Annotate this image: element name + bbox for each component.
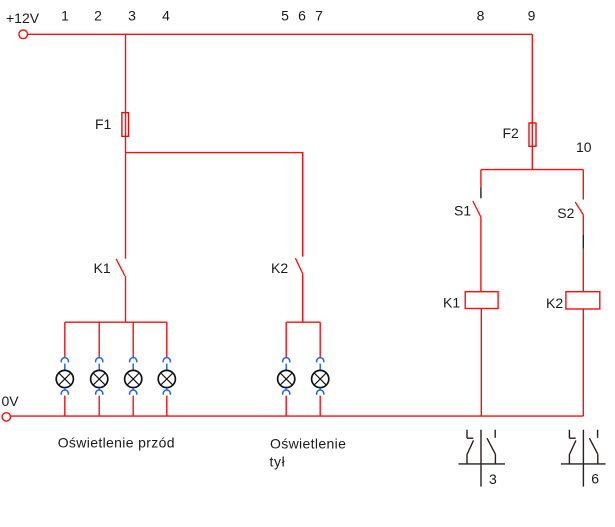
lamp L1 with connectors (56, 358, 73, 395)
svg-text:8: 8 (477, 7, 485, 23)
svg-text:K2: K2 (271, 260, 288, 276)
wire S1 upper stub (480, 170, 482, 188)
lamp L6 with connectors (312, 358, 329, 395)
terminal 0V (2, 413, 10, 421)
label Oswietlenie tyl line2 (270, 453, 286, 469)
wire number 3 (128, 7, 136, 23)
contact K1 (relay contact, NO) (116, 259, 125, 276)
svg-text:9: 9 (528, 7, 536, 23)
svg-text:tył: tył (270, 453, 286, 469)
node 0V label (2, 393, 20, 409)
svg-text:4: 4 (162, 7, 170, 23)
svg-text:F2: F2 (503, 125, 520, 141)
svg-text:10: 10 (576, 139, 592, 155)
wire top +12V rail (28, 33, 532, 35)
svg-text:K1: K1 (443, 294, 460, 310)
wire number 9 (528, 7, 536, 23)
switch S1 (NO pushbutton blade) (473, 201, 481, 217)
wire bottom 0V rail (10, 415, 583, 417)
wire control rung (481, 169, 583, 171)
svg-text:Oświetlenie: Oświetlenie (270, 435, 346, 451)
svg-text:K2: K2 (546, 295, 563, 311)
wire S2 to coil K2 lower red part (582, 249, 584, 292)
label K2 coil (546, 295, 563, 311)
wire number 6 (298, 7, 306, 23)
lamp L5 with connectors (278, 358, 295, 395)
wire S1 upper stub dark part (480, 187, 482, 198)
wire front lamp drop 2 (98, 322, 100, 358)
relay coil K2 (566, 292, 600, 309)
wire S2 upper stub (582, 170, 584, 200)
wire K1 contact to front bus (125, 276, 127, 322)
wire rear lamp drop 1 (285, 322, 287, 358)
wire S2 to coil K2 dark part (582, 235, 584, 249)
svg-text:5: 5 (281, 7, 289, 23)
node +12V label (6, 10, 40, 26)
wire coil K2 to 0V rail (582, 309, 584, 416)
label K2 contact (271, 260, 288, 276)
wire S2 to coil K2 upper red part (582, 215, 584, 235)
wire front lamp drop 3 (132, 322, 134, 358)
svg-text:F1: F1 (95, 116, 112, 132)
wire F1 branch vertical (125, 34, 127, 258)
label F2 (503, 125, 520, 141)
lamp L3 with connectors (125, 358, 142, 395)
wire rear lamp drop 2 (319, 322, 321, 358)
fuse F2 (529, 123, 536, 146)
svg-text:1: 1 (61, 7, 69, 23)
wire rear lamp bus (286, 321, 320, 323)
wire lamp L5 to 0V rail (285, 396, 287, 417)
wire lamp L3 to 0V rail (132, 396, 134, 417)
relay coil K1 (465, 292, 498, 309)
wire K2 contact to rear bus (302, 274, 304, 322)
wire front lamp bus (65, 321, 167, 323)
fuse F1 (122, 113, 129, 137)
wire lamp L4 to 0V rail (166, 396, 168, 417)
svg-text:6: 6 (298, 7, 306, 23)
svg-text:S1: S1 (454, 202, 471, 218)
svg-text:7: 7 (315, 7, 323, 23)
lamp L4 with connectors (158, 358, 175, 395)
switch S2 (NO pushbutton blade) (575, 202, 583, 215)
label F1 (95, 116, 112, 132)
label S2 (557, 205, 574, 221)
wire S1 to coil K1 (480, 217, 482, 291)
wire number 5 (281, 7, 289, 23)
wire number 4 (162, 7, 170, 23)
wire front lamp drop 1 (64, 322, 66, 358)
wire lamp L2 to 0V rail (98, 396, 100, 417)
wire number 10 (576, 139, 592, 155)
svg-text:Oświetlenie przód: Oświetlenie przód (58, 435, 175, 451)
wire lamp L6 to 0V rail (319, 396, 321, 417)
svg-text:0V: 0V (2, 393, 20, 409)
wire number 2 (94, 7, 102, 23)
label contact count 3 (489, 471, 497, 487)
label Oswietlenie tyl line1 (270, 435, 346, 451)
wire lamp L1 to 0V rail (64, 396, 66, 417)
label K1 coil (443, 294, 460, 310)
contact reference symbol for K2 (561, 430, 606, 487)
label Oswietlenie przod (58, 435, 175, 451)
wire number 7 (315, 7, 323, 23)
label S1 (454, 202, 471, 218)
wire number 8 (477, 7, 485, 23)
wire front lamp drop 4 (166, 322, 168, 358)
svg-text:+12V: +12V (6, 10, 40, 26)
wire branch to K2 contact (126, 153, 303, 257)
label K1 contact (94, 260, 111, 276)
label contact count 6 (591, 471, 599, 487)
svg-text:3: 3 (489, 471, 497, 487)
contact reference symbol for K1 (459, 430, 506, 487)
terminal +12V (19, 30, 28, 39)
svg-text:S2: S2 (557, 205, 574, 221)
svg-text:3: 3 (128, 7, 136, 23)
wire F2 drop from rail (531, 34, 533, 169)
lamp L2 with connectors (91, 358, 108, 395)
contact K2 (relay contact, NO) (295, 258, 302, 274)
svg-text:2: 2 (94, 7, 102, 23)
wire number 1 (61, 7, 69, 23)
svg-text:6: 6 (591, 471, 599, 487)
wire coil K1 to 0V rail (480, 309, 482, 417)
svg-text:K1: K1 (94, 260, 111, 276)
